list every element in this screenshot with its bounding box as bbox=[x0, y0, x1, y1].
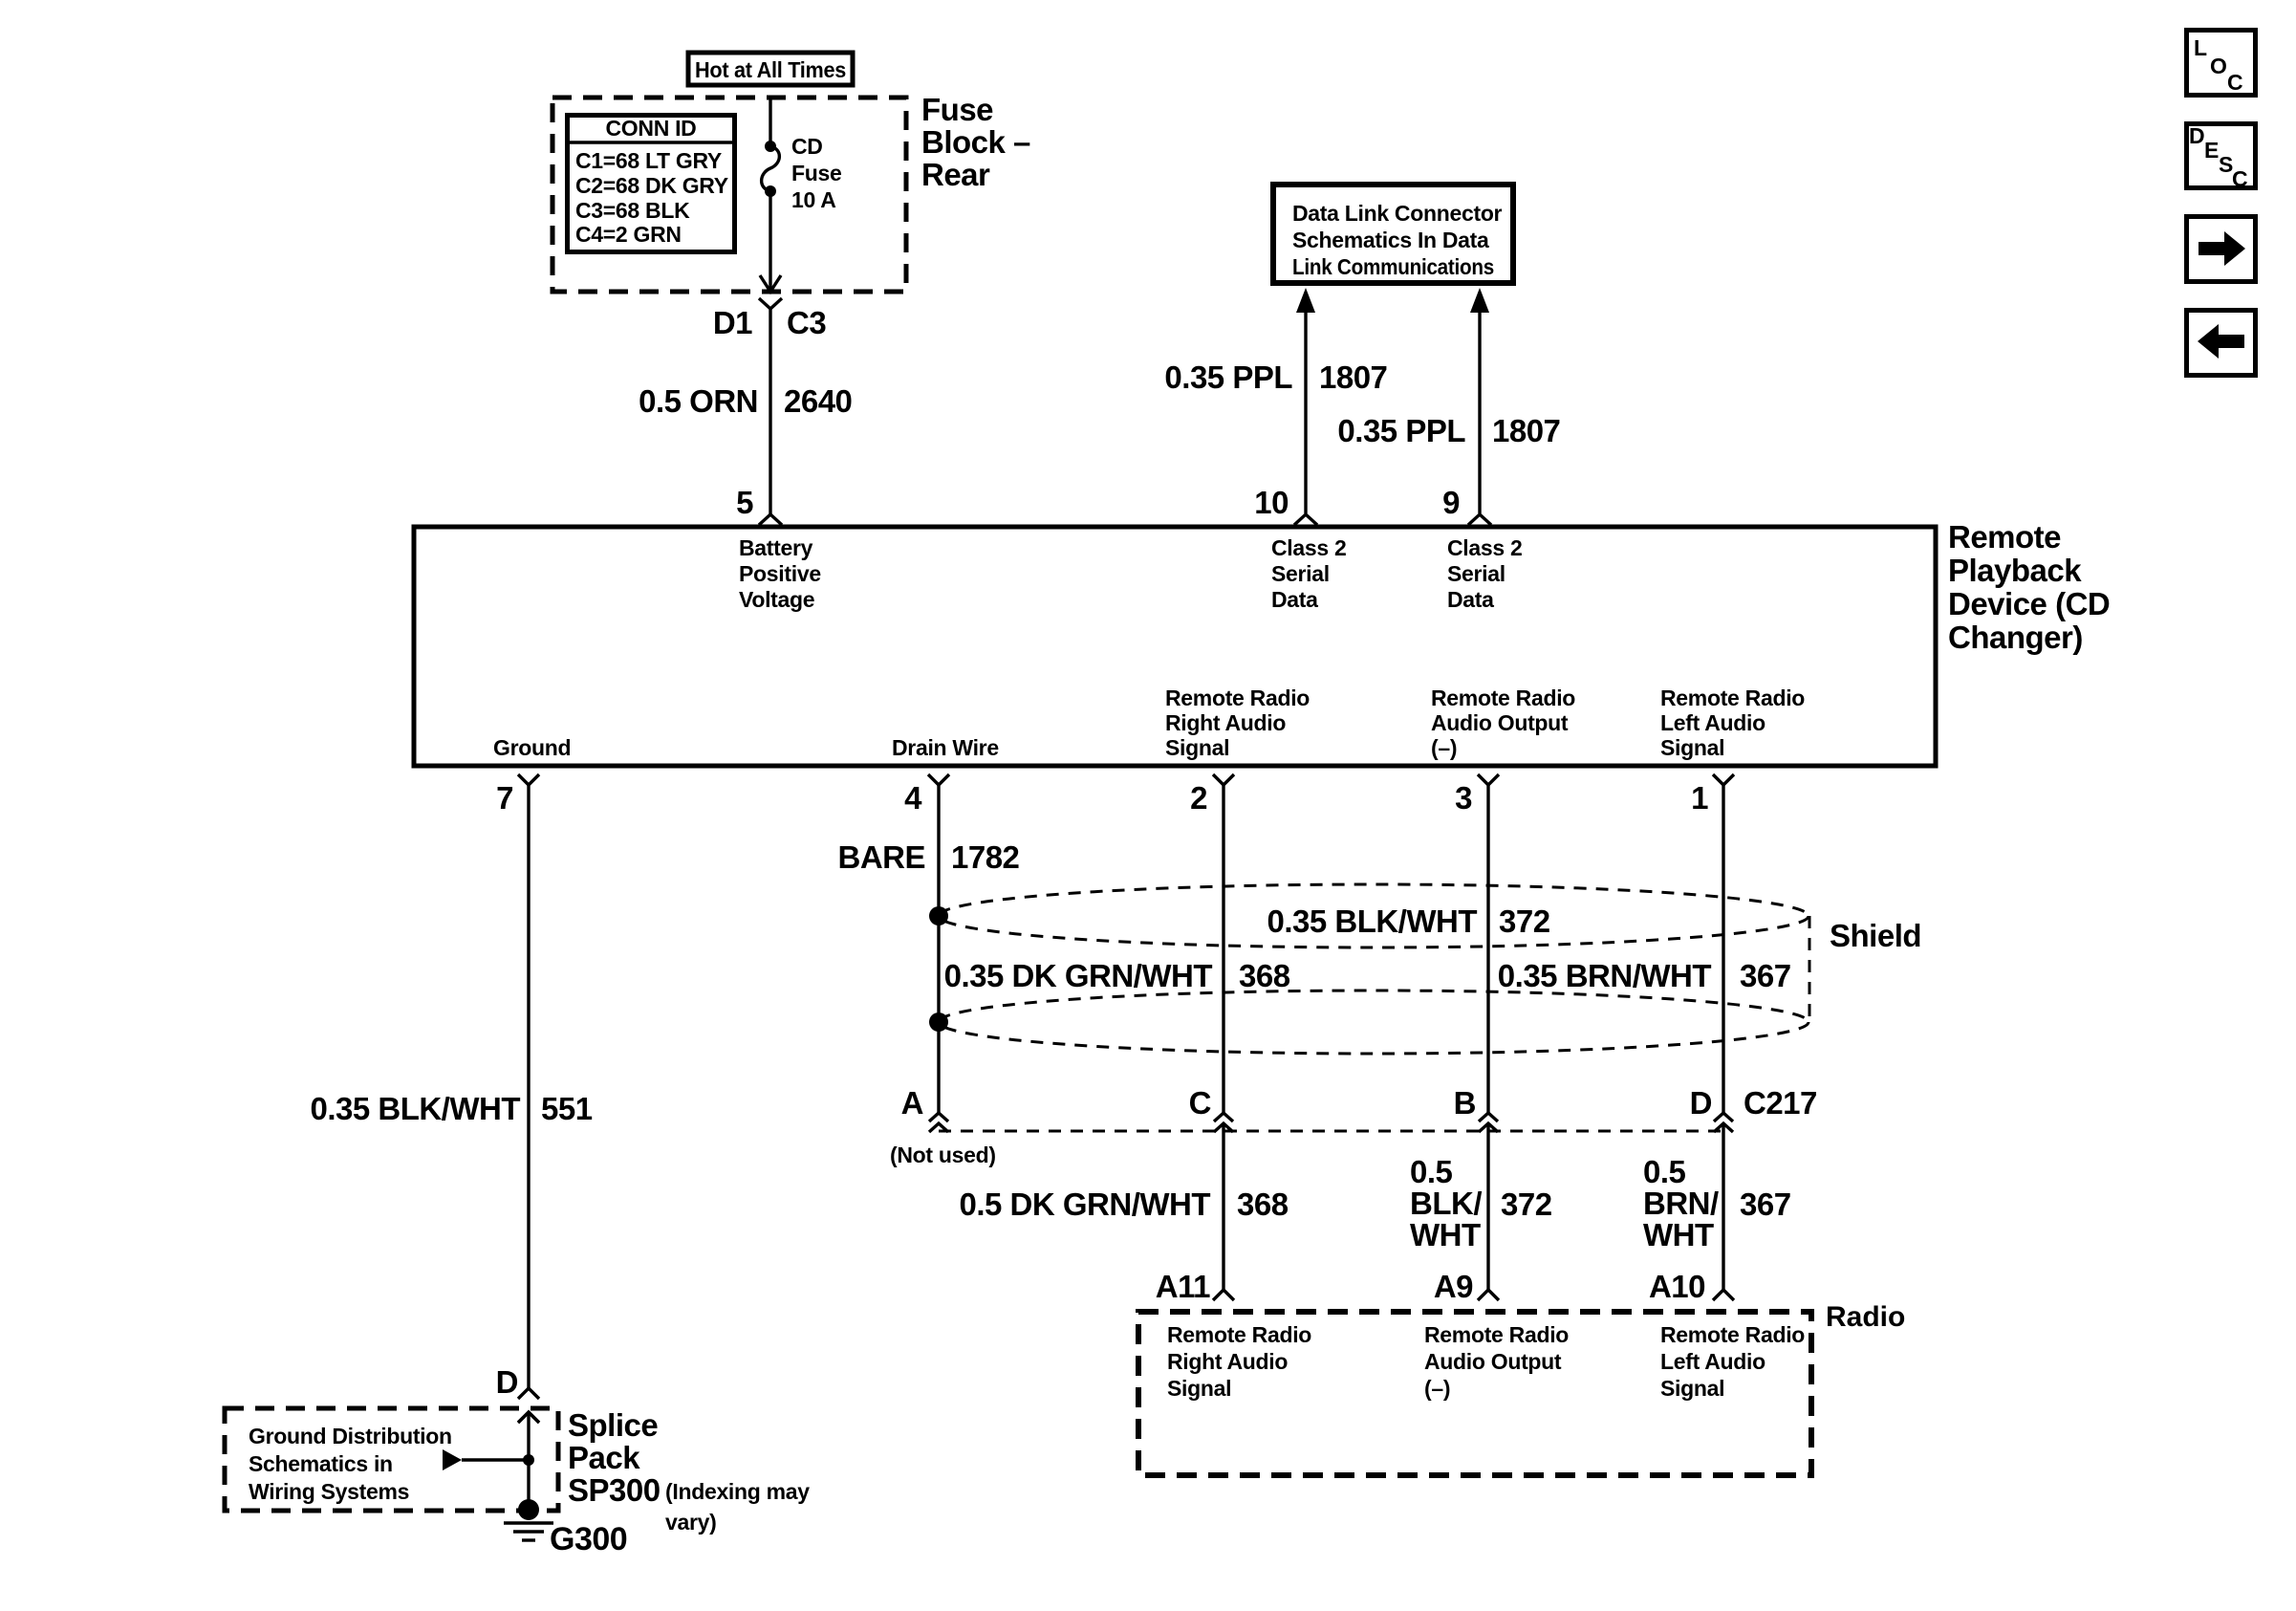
svg-text:Remote Radio: Remote Radio bbox=[1167, 1322, 1311, 1347]
svg-text:Schematics in: Schematics in bbox=[249, 1451, 393, 1476]
svg-text:1807: 1807 bbox=[1492, 413, 1560, 448]
svg-text:B: B bbox=[1454, 1085, 1476, 1121]
svg-text:Voltage: Voltage bbox=[739, 587, 814, 612]
svg-text:Right Audio: Right Audio bbox=[1167, 1349, 1288, 1374]
pin 3 bbox=[1455, 774, 1499, 816]
junction: splice branch dot bbox=[523, 1454, 534, 1466]
svg-text:7: 7 bbox=[496, 780, 513, 816]
wire: fuse output with arrow bbox=[760, 191, 781, 292]
svg-text:CD: CD bbox=[791, 134, 823, 159]
svg-text:4: 4 bbox=[904, 780, 922, 816]
radio pin name: Remote Radio Audio Output (-) bbox=[1424, 1322, 1569, 1401]
svg-text:C: C bbox=[2227, 70, 2242, 95]
svg-text:Rear: Rear bbox=[921, 157, 990, 192]
ground distribution dashed box bbox=[225, 1408, 558, 1511]
CONN ID table bbox=[565, 116, 737, 252]
svg-text:Class 2: Class 2 bbox=[1447, 535, 1522, 560]
svg-text:E: E bbox=[2204, 138, 2219, 163]
wire: 0.5 BRN/WHT 367 to radio bbox=[1643, 1123, 1791, 1300]
svg-text:Schematics In Data: Schematics In Data bbox=[1292, 228, 1489, 252]
connector D1/C3 bbox=[713, 298, 827, 340]
svg-text:Ground Distribution: Ground Distribution bbox=[249, 1424, 452, 1448]
pin 1 bbox=[1691, 774, 1734, 816]
icon: DESC button bbox=[2187, 123, 2256, 191]
icon: LOC button bbox=[2187, 31, 2256, 96]
svg-text:0.5: 0.5 bbox=[1643, 1154, 1686, 1189]
wire: 0.5 ORN 2640 circuit bbox=[639, 309, 852, 514]
svg-text:1782: 1782 bbox=[951, 839, 1020, 875]
svg-text:10 A: 10 A bbox=[791, 187, 836, 212]
pin 2 bbox=[1190, 774, 1234, 816]
svg-text:Remote Radio: Remote Radio bbox=[1431, 686, 1575, 710]
pin name: Class 2 Serial Data (pin 10) bbox=[1271, 535, 1346, 612]
arrow to ground distribution reference bbox=[443, 1449, 462, 1470]
wire: 0.5 DK GRN/WHT 368 to radio bbox=[959, 1123, 1288, 1300]
svg-text:C4=2 GRN: C4=2 GRN bbox=[575, 222, 682, 247]
svg-text:1: 1 bbox=[1691, 780, 1708, 816]
svg-text:D1: D1 bbox=[713, 305, 752, 340]
svg-text:Fuse: Fuse bbox=[921, 92, 993, 127]
svg-text:Left Audio: Left Audio bbox=[1660, 710, 1765, 735]
svg-text:Remote Radio: Remote Radio bbox=[1660, 686, 1805, 710]
svg-text:C: C bbox=[1189, 1085, 1211, 1121]
svg-text:0.5: 0.5 bbox=[1410, 1154, 1453, 1189]
svg-text:Drain Wire: Drain Wire bbox=[892, 735, 999, 760]
svg-text:2: 2 bbox=[1190, 780, 1207, 816]
svg-text:Device (CD: Device (CD bbox=[1948, 586, 2110, 621]
junction: shield tap lower dot bbox=[929, 1012, 948, 1032]
svg-text:Ground: Ground bbox=[493, 735, 571, 760]
shield ellipse lower bbox=[939, 991, 1809, 1054]
shield right edge bbox=[1809, 916, 1811, 1022]
label: Hot at All Times box bbox=[688, 53, 853, 85]
svg-text:5: 5 bbox=[736, 485, 753, 520]
svg-text:1807: 1807 bbox=[1319, 359, 1387, 395]
svg-text:C: C bbox=[2232, 166, 2247, 191]
svg-text:372: 372 bbox=[1501, 1186, 1552, 1222]
connector C217 dashed line bbox=[939, 1130, 1723, 1133]
radio dashed box bbox=[1138, 1312, 1811, 1475]
svg-text:0.35 BLK/WHT: 0.35 BLK/WHT bbox=[1267, 903, 1477, 939]
svg-text:Remote Radio: Remote Radio bbox=[1660, 1322, 1805, 1347]
svg-text:SP300: SP300 bbox=[568, 1472, 661, 1508]
svg-text:BRN/: BRN/ bbox=[1643, 1186, 1719, 1221]
svg-text:Block –: Block – bbox=[921, 124, 1030, 160]
svg-text:Splice: Splice bbox=[568, 1407, 658, 1443]
pin name: Battery Positive Voltage bbox=[739, 535, 821, 612]
svg-text:10: 10 bbox=[1254, 485, 1289, 520]
svg-text:(–): (–) bbox=[1424, 1376, 1450, 1401]
svg-text:Fuse: Fuse bbox=[791, 161, 841, 185]
wire: 0.35 PPL 1807 pin 9 to DLC bbox=[1337, 288, 1560, 513]
svg-text:367: 367 bbox=[1740, 958, 1791, 993]
pin 10 bbox=[1254, 485, 1317, 525]
pin name: Class 2 Serial Data (pin 9) bbox=[1447, 535, 1522, 612]
svg-text:Signal: Signal bbox=[1660, 735, 1724, 760]
svg-text:Signal: Signal bbox=[1167, 1376, 1231, 1401]
connector A (not used) bbox=[890, 1085, 996, 1167]
svg-text:Right Audio: Right Audio bbox=[1165, 710, 1286, 735]
svg-text:0.5 DK GRN/WHT: 0.5 DK GRN/WHT bbox=[959, 1186, 1210, 1222]
connector D at splice pack bbox=[496, 1364, 539, 1423]
svg-text:Serial: Serial bbox=[1271, 561, 1330, 586]
svg-text:Hot at All Times: Hot at All Times bbox=[695, 57, 846, 82]
wire label: 0.35 BRN/WHT 367 bbox=[1498, 958, 1791, 993]
svg-text:Signal: Signal bbox=[1165, 735, 1229, 760]
svg-text:0.35 PPL: 0.35 PPL bbox=[1337, 413, 1465, 448]
svg-text:WHT: WHT bbox=[1410, 1217, 1481, 1252]
svg-text:372: 372 bbox=[1499, 903, 1550, 939]
svg-text:G300: G300 bbox=[550, 1521, 627, 1557]
svg-text:C3: C3 bbox=[787, 305, 826, 340]
svg-text:Changer): Changer) bbox=[1948, 620, 2083, 655]
icon: next arrow button bbox=[2187, 217, 2256, 282]
svg-text:Positive: Positive bbox=[739, 561, 821, 586]
wire: 0.5 BLK/WHT 372 to radio bbox=[1410, 1123, 1552, 1300]
svg-text:Audio Output: Audio Output bbox=[1424, 1349, 1562, 1374]
svg-text:BLK/: BLK/ bbox=[1410, 1186, 1482, 1221]
svg-text:(Indexing may: (Indexing may bbox=[665, 1479, 810, 1504]
svg-text:Battery: Battery bbox=[739, 535, 813, 560]
pin 5 bbox=[736, 485, 782, 525]
svg-text:D: D bbox=[1690, 1085, 1712, 1121]
svg-text:Data: Data bbox=[1271, 587, 1318, 612]
svg-text:C2=68 DK GRY: C2=68 DK GRY bbox=[575, 173, 728, 198]
svg-text:Data: Data bbox=[1447, 587, 1494, 612]
pin 4 bbox=[904, 774, 949, 816]
label: Splice Pack SP300 bbox=[568, 1407, 661, 1508]
svg-text:0.35 BLK/WHT: 0.35 BLK/WHT bbox=[310, 1091, 520, 1126]
shield ellipse upper bbox=[939, 884, 1809, 947]
svg-text:3: 3 bbox=[1455, 780, 1472, 816]
svg-text:CONN ID: CONN ID bbox=[605, 116, 696, 141]
svg-text:A: A bbox=[901, 1085, 923, 1121]
svg-text:368: 368 bbox=[1237, 1186, 1289, 1222]
svg-text:WHT: WHT bbox=[1643, 1217, 1714, 1252]
svg-text:Remote Radio: Remote Radio bbox=[1424, 1322, 1569, 1347]
data link connector box bbox=[1273, 185, 1513, 283]
pin name: Remote Radio Right Audio Signal bbox=[1165, 686, 1310, 760]
svg-text:S: S bbox=[2219, 152, 2233, 177]
svg-text:9: 9 bbox=[1442, 485, 1460, 520]
wire: pin 3 audio output upper bbox=[1486, 785, 1489, 1113]
svg-text:Serial: Serial bbox=[1447, 561, 1505, 586]
svg-text:Remote Radio: Remote Radio bbox=[1165, 686, 1310, 710]
svg-text:Playback: Playback bbox=[1948, 553, 2082, 588]
wire label: 0.35 DK GRN/WHT 368 bbox=[944, 958, 1290, 993]
svg-text:A11: A11 bbox=[1156, 1269, 1210, 1304]
fuse block dashed box bbox=[552, 98, 906, 292]
svg-text:Radio: Radio bbox=[1826, 1301, 1905, 1333]
connector D C217 bbox=[1690, 1085, 1817, 1132]
fuse: CD Fuse 10 A bbox=[762, 134, 842, 212]
svg-text:Left Audio: Left Audio bbox=[1660, 1349, 1765, 1374]
svg-text:368: 368 bbox=[1239, 958, 1290, 993]
wire: splice pack internal bbox=[527, 1412, 530, 1509]
svg-text:Class 2: Class 2 bbox=[1271, 535, 1346, 560]
pin name: Remote Radio Audio Output (-) bbox=[1431, 686, 1575, 760]
connector chevron into splice pack bbox=[518, 1412, 539, 1423]
pin 7 bbox=[496, 774, 539, 816]
icon: back arrow button bbox=[2187, 311, 2256, 376]
svg-text:2640: 2640 bbox=[784, 383, 852, 419]
svg-text:Pack: Pack bbox=[568, 1440, 640, 1475]
svg-text:Wiring Systems: Wiring Systems bbox=[249, 1479, 409, 1504]
wire: hot feed into fuse bbox=[769, 98, 771, 146]
connector C bbox=[1189, 1085, 1233, 1132]
svg-text:C217: C217 bbox=[1744, 1085, 1817, 1121]
svg-text:0.35 PPL: 0.35 PPL bbox=[1164, 359, 1292, 395]
wire: 0.35 PPL 1807 pin 10 to DLC bbox=[1164, 288, 1387, 513]
svg-text:D: D bbox=[496, 1364, 518, 1400]
pin name: Remote Radio Left Audio Signal bbox=[1660, 686, 1805, 760]
wire: BARE 1782 drain wire bbox=[837, 785, 1019, 1113]
svg-text:Remote: Remote bbox=[1948, 519, 2061, 555]
device box: Remote Playback Device (CD Changer) bbox=[414, 527, 1936, 766]
ground symbol G300 bbox=[504, 1499, 553, 1540]
junction: shield tap upper dot bbox=[929, 906, 948, 925]
svg-text:Data Link Connector: Data Link Connector bbox=[1292, 201, 1503, 226]
wire: branch to reference arrow bbox=[462, 1458, 529, 1461]
radio pin name: Remote Radio Right Audio Signal bbox=[1167, 1322, 1311, 1401]
svg-text:L: L bbox=[2194, 35, 2207, 60]
svg-text:O: O bbox=[2210, 54, 2227, 78]
svg-text:A9: A9 bbox=[1434, 1269, 1473, 1304]
svg-text:D: D bbox=[2189, 123, 2204, 148]
wire label: 0.35 BLK/WHT 372 bbox=[1267, 903, 1549, 939]
svg-text:Link Communications: Link Communications bbox=[1292, 254, 1494, 279]
svg-text:BARE: BARE bbox=[837, 839, 925, 875]
pin 9 bbox=[1442, 485, 1491, 525]
svg-text:A10: A10 bbox=[1649, 1269, 1705, 1304]
svg-text:0.5 ORN: 0.5 ORN bbox=[639, 383, 758, 419]
connector B bbox=[1454, 1085, 1498, 1132]
svg-text:C3=68 BLK: C3=68 BLK bbox=[575, 198, 690, 223]
wire: 0.35 BLK/WHT 551 ground circuit bbox=[310, 785, 592, 1388]
svg-text:0.35 BRN/WHT: 0.35 BRN/WHT bbox=[1498, 958, 1712, 993]
label: (Indexing may vary) bbox=[665, 1479, 810, 1535]
svg-text:vary): vary) bbox=[665, 1510, 717, 1535]
svg-text:(–): (–) bbox=[1431, 735, 1457, 760]
svg-text:0.35 DK GRN/WHT: 0.35 DK GRN/WHT bbox=[944, 958, 1213, 993]
svg-text:(Not used): (Not used) bbox=[890, 1143, 996, 1167]
svg-text:Shield: Shield bbox=[1830, 918, 1921, 953]
label: Fuse Block - Rear bbox=[921, 92, 1030, 192]
wire: pin 2 right audio upper bbox=[1222, 785, 1224, 1113]
svg-text:367: 367 bbox=[1740, 1186, 1791, 1222]
radio pin name: Remote Radio Left Audio Signal bbox=[1660, 1322, 1805, 1401]
svg-text:C1=68 LT GRY: C1=68 LT GRY bbox=[575, 148, 722, 173]
label: Remote Playback Device (CD Changer) bbox=[1948, 519, 2110, 655]
wire: pin 1 left audio upper bbox=[1722, 785, 1724, 1113]
svg-text:Audio Output: Audio Output bbox=[1431, 710, 1569, 735]
svg-text:Signal: Signal bbox=[1660, 1376, 1724, 1401]
svg-text:551: 551 bbox=[541, 1091, 593, 1126]
